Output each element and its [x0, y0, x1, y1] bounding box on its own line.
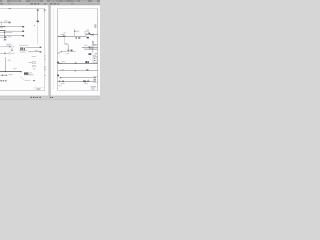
sheet-2 title block text	[91, 86, 96, 89]
bus end terminal	[20, 71, 22, 72]
motor M3 on N3	[83, 81, 86, 83]
plug connector X1	[8, 22, 10, 24]
wire: branch drop	[92, 33, 94, 36]
connector marks right margin	[44, 67, 46, 68]
plug P1 on N3	[59, 81, 60, 83]
status bar	[0, 96, 100, 100]
connector 2 on W12c	[95, 44, 96, 45]
resistor R2	[33, 65, 36, 67]
ground bus	[0, 71, 21, 73]
wire W6	[26, 46, 42, 48]
wire: mid vertical	[67, 44, 69, 50]
connector block J2 baseline	[19, 49, 26, 51]
label R1	[29, 61, 32, 64]
wire W11	[61, 51, 76, 53]
document background	[0, 5, 100, 96]
wire: right vertical	[92, 41, 94, 54]
connector J3 pin 3	[94, 81, 96, 82]
edge connector pin a	[94, 25, 96, 26]
wire W5c	[0, 52, 9, 54]
long wire net N1	[58, 62, 98, 64]
label above U1 b	[88, 29, 89, 32]
label K1	[8, 35, 12, 38]
wire W12c short	[93, 44, 97, 46]
connector block J2 pin 3	[23, 48, 26, 51]
splice dot on feed	[34, 25, 35, 26]
page 1 sheet	[0, 5, 48, 96]
connector marks right margin 4	[44, 59, 46, 60]
off-page arrow A2b	[22, 35, 24, 36]
connector 2 on W12	[90, 47, 91, 48]
net N1 heavy segment	[58, 62, 62, 64]
wire W4	[0, 32, 12, 34]
module M1 below bus	[87, 37, 89, 39]
wire W5	[0, 46, 10, 48]
label N3 right	[84, 82, 88, 85]
inline plug on W5c	[4, 53, 6, 54]
connector J4 pin 2	[94, 60, 96, 61]
wire net N2b	[61, 77, 94, 79]
ground symbol G2	[6, 75, 8, 76]
lamp L1	[68, 50, 70, 51]
status bar text	[31, 97, 54, 98]
label wire W7	[35, 49, 39, 52]
connector pin blob	[4, 39, 6, 40]
long wire net N2	[58, 70, 98, 72]
label N1	[62, 61, 66, 64]
connector J3 pin 2	[94, 79, 96, 80]
connector terminal 15	[44, 9, 46, 10]
connector on W13	[89, 48, 90, 49]
off-page arrow A3	[40, 47, 42, 48]
ground designation text	[0, 80, 6, 81]
pump unit on N3	[87, 81, 89, 82]
edge connector pin b	[94, 26, 96, 27]
wire: jog to lamp	[65, 44, 68, 46]
capacitor C1	[9, 46, 11, 47]
label R2	[33, 68, 35, 71]
connector marks right margin 3	[44, 55, 46, 56]
label bus	[61, 33, 65, 36]
toolbar	[0, 2, 100, 5]
label M2	[95, 52, 97, 55]
wire: fuse feed lower faint	[37, 22, 39, 44]
connector on W12	[89, 47, 90, 48]
diode D3 on N1	[87, 61, 89, 63]
label N2	[61, 69, 64, 72]
wire from relay K2	[24, 74, 33, 76]
page gap shading	[48, 5, 50, 96]
page 2 margin fold line	[52, 9, 54, 91]
plug on W11	[61, 51, 62, 52]
resistor R3 on vertical	[92, 41, 93, 43]
page 2 left edge shadow	[50, 5, 51, 96]
splice node S1	[74, 31, 75, 32]
branch bus upper right	[86, 34, 98, 36]
connector marks right margin 2	[44, 69, 46, 70]
label upper note	[8, 59, 11, 62]
inline connector on N1 mid	[75, 63, 77, 64]
wire W8	[0, 74, 7, 76]
connector J4 shell	[93, 57, 97, 63]
label J2	[20, 51, 25, 54]
relay K1	[4, 36, 6, 38]
label bus small	[63, 32, 66, 35]
diode D2 on N1	[85, 61, 87, 63]
wire to relay K1	[0, 36, 4, 38]
resistor R1	[33, 62, 36, 64]
plug on N2b	[60, 77, 62, 78]
control unit U1 box	[85, 31, 88, 34]
wire W3 stub	[0, 27, 3, 29]
main supply bus	[58, 35, 86, 37]
fuse F2 below bus	[75, 37, 77, 38]
wire: upper-left stub	[0, 21, 2, 27]
connector block J2 pin 1	[20, 47, 21, 50]
wire: coil drop	[11, 48, 13, 49]
wire W1	[0, 21, 10, 23]
inline connector on branch bus	[90, 34, 91, 35]
wire W3 (bus to arrow)	[4, 30, 24, 32]
wire W2 (bus to arrow)	[0, 26, 24, 28]
diode D1	[11, 50, 13, 51]
frame top dash mark	[9, 7, 12, 10]
label ground	[9, 73, 13, 76]
connector at frame on N1	[57, 62, 59, 64]
label mid note	[13, 67, 17, 70]
connector terminal 30	[37, 9, 39, 11]
label N3	[61, 82, 65, 85]
ground symbol G1	[2, 75, 3, 76]
wire W12	[82, 46, 98, 48]
module M2	[88, 53, 91, 55]
wire: terminal 15 stub	[44, 11, 46, 13]
connector at frame lower	[57, 75, 59, 77]
long wire net N3	[58, 80, 94, 82]
label frame lower small	[58, 84, 61, 87]
coil L2 circle	[11, 46, 14, 49]
sheet-1 border frame	[0, 9, 45, 91]
label above U1	[86, 29, 87, 32]
off-page arrow A4	[40, 51, 42, 52]
fuse F1	[37, 21, 40, 23]
wire: splice riser	[74, 29, 76, 31]
connector J3 shell	[93, 76, 97, 82]
wire: vertical feed to ground bus	[4, 57, 6, 72]
label J4	[93, 54, 96, 57]
wire: step between nets	[85, 35, 87, 37]
switch S2 at frame	[58, 52, 60, 53]
wire W3 heavy segment	[0, 29, 5, 31]
fuse F3 below bus	[78, 37, 80, 38]
wire: splice drop	[74, 32, 76, 36]
label mid	[65, 42, 68, 45]
connector J4 pin 1	[94, 58, 96, 59]
label note	[32, 55, 36, 58]
wire W2 heavy segment	[0, 26, 6, 28]
junction on ground bus	[5, 71, 6, 72]
label W12	[84, 44, 87, 47]
wire: N3 tick down	[84, 82, 86, 83]
wire: fuse feed vertical	[37, 9, 39, 22]
off-page arrow A1	[22, 26, 24, 27]
wire: N3 tick up	[88, 80, 90, 81]
wire W7	[28, 51, 41, 53]
connector J3 pin 1	[94, 77, 96, 78]
connector marks right margin 5	[44, 75, 46, 76]
connector 2 on W13	[91, 49, 92, 50]
sensor B1 on N2	[86, 69, 88, 71]
relay K2	[24, 72, 28, 74]
wire W13	[84, 48, 98, 50]
label wire W1	[4, 20, 8, 23]
inline connector on bus	[63, 36, 65, 37]
inline connector on N2 mid	[75, 70, 76, 71]
wire W9	[25, 79, 31, 81]
wire W3b (bus to arrow)	[0, 35, 24, 37]
supply bus heavy segment	[58, 35, 66, 37]
window menu bar	[0, 0, 100, 2]
label K2	[29, 72, 32, 75]
control unit U1 pins	[89, 33, 91, 34]
label splice	[76, 30, 79, 33]
label W5c	[12, 52, 15, 55]
connector block J2 pin 2	[22, 47, 23, 50]
inline connector 2 on branch bus	[92, 34, 93, 35]
sheet-1 title block	[34, 87, 45, 90]
transistor Q1	[71, 50, 73, 52]
page 2 sheet	[51, 5, 100, 96]
wire: diagonal branch	[20, 77, 24, 80]
wire: drop from bus	[64, 37, 66, 45]
label group text	[6, 44, 11, 46]
sheet-2 border frame top and bottom	[58, 9, 98, 91]
off-page arrow A2	[22, 31, 24, 32]
sheet-1 title block text	[36, 88, 40, 90]
label below W11	[66, 52, 69, 55]
wire: branch vertical	[3, 30, 5, 39]
sheet-2 border frame sides	[58, 9, 98, 91]
inline connector on N3	[62, 81, 64, 82]
junction node	[4, 32, 5, 33]
connector on W12c	[93, 44, 94, 45]
terminal lug	[33, 80, 35, 81]
wire W5b	[19, 44, 28, 46]
coil L3 circle	[9, 52, 11, 54]
